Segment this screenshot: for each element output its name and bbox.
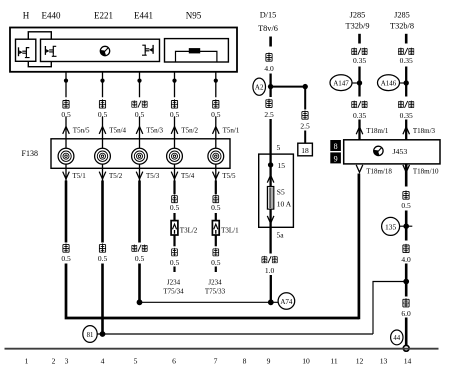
svg-text:J234: J234 [167,278,181,286]
svg-text:9: 9 [334,154,338,163]
svg-text:E440: E440 [42,11,61,21]
wire 4 lower white [174,168,176,180]
svg-text:8: 8 [243,357,247,366]
wire 1 lower yellow [65,168,67,180]
node A147 [357,80,362,85]
svg-text:3: 3 [65,357,69,366]
junction [100,79,104,83]
svg-text:E221: E221 [94,11,113,21]
wire label black 4.0 [266,53,272,62]
svg-text:0.5: 0.5 [401,201,411,210]
svg-text:2: 2 [52,357,56,366]
svg-text:F138: F138 [22,149,38,158]
wire label black/red 0.5 [132,100,137,107]
coil F138-5 [208,148,224,164]
wire label orange/green 0.35 [398,101,403,108]
connector T5n/1 [213,127,220,134]
wire label yellow 0.5 [63,99,69,108]
linkage bracket [28,32,51,67]
wire label orange/green 0.35 [398,48,403,55]
wire 3 lower black/red [139,168,141,180]
svg-text:J234: J234 [208,278,222,286]
svg-text:A2: A2 [255,83,264,91]
link wire to ground bus [373,282,406,335]
ground connection 81 [100,331,106,337]
branch to terminal 18 [304,87,306,144]
inline connector T3L/1 [212,221,219,235]
svg-text:T5/2: T5/2 [109,172,123,180]
svg-text:8: 8 [334,142,338,151]
switch H box [16,39,36,61]
switch panel box [41,39,160,61]
coil F138-3 [132,148,148,164]
svg-text:1: 1 [25,357,29,366]
component box (steering wheel switch assembly) [10,28,237,72]
svg-text:2.5: 2.5 [264,110,274,119]
svg-text:T3L/2: T3L/2 [180,227,198,235]
wire label brown 6.0 [403,298,409,307]
svg-text:A146: A146 [381,80,397,88]
svg-text:5a: 5a [277,231,285,240]
svg-text:T3L/1: T3L/1 [221,227,239,235]
svg-text:0.35: 0.35 [353,111,366,120]
svg-text:135: 135 [385,222,397,231]
connector T5n/3 [136,127,143,134]
svg-text:J285: J285 [350,10,366,19]
wire label brown 0.5 [99,99,105,108]
svg-text:E441: E441 [134,11,153,21]
wire brown 0.5 below J453 [405,164,408,187]
switch E441 [142,45,153,55]
svg-text:6: 6 [172,357,176,366]
svg-text:0.5: 0.5 [170,258,180,267]
node line to A74 [137,299,143,305]
wire label black 0.5 [171,99,177,108]
svg-text:T5n/1: T5n/1 [223,127,240,135]
wire 3 upper [139,72,141,169]
N95 box [165,39,229,62]
connector T18m/18 [356,165,363,172]
wire 5 lower yellow [215,168,217,180]
svg-text:T18m/3: T18m/3 [413,127,436,135]
svg-text:0.35: 0.35 [400,56,413,65]
connector T18m/10 [403,165,410,172]
svg-text:14: 14 [404,357,412,366]
svg-text:0.5: 0.5 [61,110,71,119]
junction [214,79,218,83]
svg-text:0.5: 0.5 [170,110,180,119]
svg-text:0.35: 0.35 [400,111,413,120]
svg-text:0.5: 0.5 [135,110,145,119]
branch wire [271,86,306,88]
fuse box S5 [259,154,294,227]
track numbers [25,357,412,366]
svg-text:15: 15 [278,161,286,170]
pin 9 [330,152,341,163]
wire label black 0.5 [213,99,219,108]
switch E440 [45,46,56,56]
svg-text:4.0: 4.0 [264,64,274,73]
junction [64,79,68,83]
connector T5/4 [171,172,178,179]
svg-text:0.5: 0.5 [98,254,108,263]
svg-text:13: 13 [380,357,388,366]
wire label black 2.5 [302,111,308,120]
node A146 [404,80,409,85]
svg-text:5: 5 [277,143,281,152]
svg-text:T32b/8: T32b/8 [390,22,414,31]
svg-text:T18m/10: T18m/10 [413,167,439,175]
airbag igniter N95 [176,51,217,62]
svg-text:D/15: D/15 [260,10,277,19]
junction [172,79,176,83]
svg-text:T5n/2: T5n/2 [181,127,198,135]
svg-text:T5n/4: T5n/4 [109,127,126,135]
svg-text:0.5: 0.5 [170,203,180,212]
connector T5n/5 [63,127,70,134]
svg-text:0.5: 0.5 [211,110,221,119]
junction [403,279,409,285]
wire 4 upper [174,72,176,169]
svg-text:6.0: 6.0 [401,309,411,318]
connector T5/3 [136,172,143,179]
svg-text:T5/1: T5/1 [73,172,87,180]
svg-text:T5/4: T5/4 [181,172,195,180]
ground point 44 [391,330,403,345]
coil F138-4 [167,148,183,164]
svg-text:T18m/18: T18m/18 [366,167,392,175]
wire label orange/brown 0.35 [352,101,357,108]
svg-text:T75/33: T75/33 [205,288,226,296]
svg-text:10: 10 [302,357,310,366]
wire 5 upper [215,72,217,169]
coil F138-2 [95,148,111,164]
svg-text:0.35: 0.35 [353,56,366,65]
wire label black/red 1.0 [262,256,267,263]
svg-text:T5/3: T5/3 [146,172,160,180]
svg-text:4.0: 4.0 [401,255,411,264]
horn switch H [19,47,30,57]
svg-text:A147: A147 [333,80,349,88]
svg-text:12: 12 [356,357,364,366]
control module J453 [344,140,440,164]
svg-text:H: H [23,11,30,21]
svg-text:T32b/9: T32b/9 [346,22,370,31]
wire label orange/brown 0.35 [352,48,357,55]
svg-text:T8v/6: T8v/6 [258,24,278,33]
wire to J453 T18m/18 [66,264,359,319]
svg-text:T5n/5: T5n/5 [73,127,90,135]
svg-text:2.5: 2.5 [300,121,310,130]
svg-text:4: 4 [101,357,105,366]
svg-text:0.5: 0.5 [211,203,221,212]
F138 slip ring box [51,139,230,169]
svg-text:5: 5 [134,357,138,366]
svg-text:9: 9 [267,357,271,366]
svg-text:T5n/3: T5n/3 [146,127,163,135]
connector T18m/1 [356,127,363,134]
node A2 [268,84,273,89]
symbol E221 [100,46,109,55]
inline connector T3L/2 [171,221,178,235]
pin 8 [330,140,341,151]
svg-text:A74: A74 [280,298,293,306]
svg-text:T5/5: T5/5 [222,172,236,180]
connector T5/1 [63,172,70,179]
fuse S5 10A [267,187,273,210]
svg-text:J285: J285 [394,10,410,19]
svg-text:1.0: 1.0 [265,266,275,275]
svg-text:T18m/1: T18m/1 [366,127,389,135]
junction [137,79,141,83]
wire 2 upper [102,72,104,169]
wire label brown 4.0 [403,244,409,253]
plus connection A74 [278,293,295,310]
wire label black 2.5 [266,99,272,108]
svg-text:0.5: 0.5 [98,110,108,119]
svg-text:7: 7 [214,357,218,366]
svg-text:44: 44 [393,335,400,342]
svg-text:81: 81 [87,332,94,339]
svg-text:J453: J453 [393,147,408,156]
connector T18m/3 [403,127,410,134]
svg-text:S5: S5 [277,187,285,196]
terminal box 18 [298,143,313,156]
wire 2 lower brown [102,168,104,180]
svg-text:10 A: 10 A [277,199,292,208]
coil F138-1 [58,148,74,164]
wire 1 upper [65,72,67,169]
svg-text:11: 11 [330,357,338,366]
connector T5n/4 [99,127,106,134]
connector T5/2 [99,172,106,179]
svg-text:0.5: 0.5 [61,254,71,263]
svg-text:N95: N95 [186,11,202,21]
svg-text:0.5: 0.5 [135,254,145,263]
node 135 [400,225,413,227]
connector T5/5 [213,172,220,179]
svg-text:T75/34: T75/34 [163,288,184,296]
bottom rule [5,348,439,350]
svg-text:18: 18 [301,146,309,155]
svg-text:0.5: 0.5 [211,258,221,267]
connector T5n/2 [171,127,178,134]
